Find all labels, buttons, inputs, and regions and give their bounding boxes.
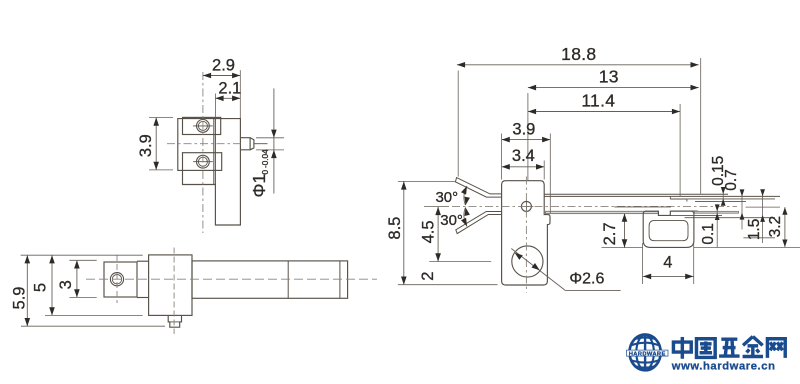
dimension 5 — [21, 255, 143, 315]
plan view: bottom tab — [168, 315, 181, 327]
front view: middle contact line — [614, 206, 671, 208]
plan view: arm segment left — [137, 261, 149, 297]
svg-text:5.9: 5.9 — [10, 287, 28, 310]
svg-text:HARDWARE: HARDWARE — [629, 351, 666, 357]
svg-text:Φ2.6: Φ2.6 — [569, 271, 604, 288]
logo: glyph wang — [767, 339, 785, 358]
side view: actuator pin — [240, 138, 267, 150]
svg-text:2.7: 2.7 — [601, 222, 619, 245]
dimension 2 — [419, 272, 437, 281]
side view: screw head upper — [193, 120, 213, 133]
dimension 3.9 (front) — [502, 120, 551, 213]
plan view: screw hole — [110, 273, 123, 286]
svg-text:8.5: 8.5 — [386, 217, 404, 240]
side view: vertical centerline — [202, 72, 204, 233]
dimension 13 — [528, 67, 699, 180]
front view: terminal obround — [643, 211, 694, 247]
svg-text:0.7: 0.7 — [723, 169, 740, 191]
svg-text:30°: 30° — [440, 212, 463, 229]
plan view: screw hole centerline — [116, 255, 118, 303]
dimension 2.7 — [601, 214, 643, 248]
dimension 11.4 — [528, 91, 680, 196]
svg-text:2.9: 2.9 — [212, 57, 235, 75]
svg-text:www.hardware.cn: www.hardware.cn — [671, 361, 776, 373]
front view: right contact lines — [660, 207, 800, 247]
front view: lower spring prong — [456, 212, 502, 234]
logo: url text — [671, 361, 776, 373]
dimension 0.15 — [710, 156, 727, 206]
dimension 3.4 — [502, 147, 545, 180]
logo: HARDWARE banner — [627, 350, 669, 357]
logo: globe icon — [630, 335, 661, 371]
svg-text:-0.04: -0.04 — [261, 149, 270, 168]
dimension 4 (terminal width) — [643, 243, 694, 284]
svg-text:3: 3 — [57, 280, 75, 289]
dimension 0.1 — [700, 204, 720, 247]
front view: mounting hole phi2.6 — [512, 246, 543, 277]
logo: glyph zhong — [673, 337, 691, 359]
logo: glyph wu — [719, 339, 739, 356]
svg-text:0.1: 0.1 — [700, 223, 717, 245]
front view: horizontal centerline — [424, 205, 449, 207]
svg-text:18.8: 18.8 — [561, 44, 596, 64]
front view: top contact strip — [544, 194, 780, 196]
front view: strip step — [670, 196, 775, 201]
plan view: clamp block square — [104, 262, 137, 297]
plan view: horizontal centerline — [86, 278, 377, 280]
logo: glyph jin — [743, 337, 763, 357]
plan view: long arm — [192, 261, 348, 298]
dimension 2.9 (pin offset) — [203, 57, 240, 118]
svg-text:Φ1: Φ1 — [249, 174, 269, 198]
dimension phi1 0/-0.04 (pin diameter) — [249, 88, 284, 197]
svg-text:3.2: 3.2 — [767, 216, 784, 238]
dimension 1.5 — [746, 189, 765, 243]
svg-text:30°: 30° — [435, 189, 458, 206]
svg-text:3.9: 3.9 — [137, 134, 155, 157]
svg-text:4: 4 — [663, 253, 672, 271]
svg-text:2: 2 — [419, 272, 437, 281]
logo: glyph guo — [696, 339, 715, 358]
dimension phi2.6 leader — [511, 249, 620, 291]
side view: screw clamp block lower — [183, 153, 222, 171]
side view: bracket body outline — [178, 119, 241, 225]
plan view: vertical centerline — [173, 248, 175, 335]
side view: thin leaf spring edge lines — [214, 119, 216, 185]
svg-text:4.5: 4.5 — [420, 220, 438, 243]
dimension 4.5 — [420, 207, 492, 262]
front view: pivot hole — [520, 200, 534, 214]
svg-text:3.9: 3.9 — [512, 120, 535, 138]
side view: horizontal centerline — [167, 143, 240, 145]
dimension 3.2 — [767, 207, 788, 247]
side view: screw head lower — [193, 155, 213, 168]
angle dimension 30 deg upper — [435, 186, 469, 206]
dimension 0.7 — [723, 169, 744, 229]
front view: upper spring prong — [455, 178, 501, 198]
svg-text:1.5: 1.5 — [746, 219, 763, 241]
svg-text:5: 5 — [31, 283, 49, 292]
front view: switch body outline — [502, 181, 550, 285]
dimension 18.8 — [457, 44, 701, 194]
dimension 3.9 (block height) — [137, 118, 173, 170]
svg-text:0: 0 — [261, 170, 270, 175]
side view: screw clamp block upper — [183, 117, 221, 134]
plan view: main housing block — [149, 255, 192, 316]
svg-text:11.4: 11.4 — [581, 91, 615, 111]
angle dimension 30 deg lower — [440, 207, 470, 229]
dimension 2.1 — [215, 79, 241, 118]
svg-text:3.4: 3.4 — [512, 147, 535, 165]
svg-text:2.1: 2.1 — [218, 79, 241, 97]
front view: lower contact strip — [546, 211, 659, 213]
dimension 8.5 — [386, 181, 498, 284]
svg-text:13: 13 — [599, 67, 619, 87]
dimension 3 — [57, 260, 97, 297]
front view: vertical centerline — [525, 177, 527, 293]
dimension 5.9 — [10, 255, 165, 326]
